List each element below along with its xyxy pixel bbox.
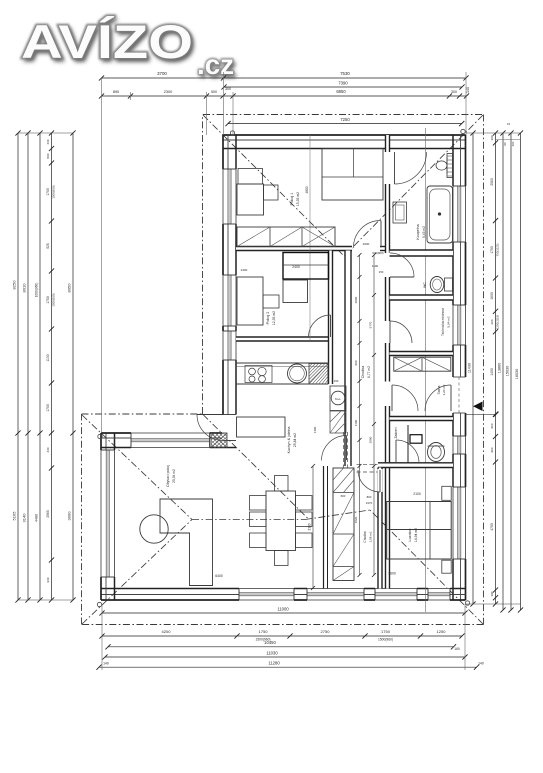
door satna left (391, 385, 393, 411)
svg-text:925: 925 (46, 243, 50, 249)
bottom dimension row 10450 (105, 640, 460, 651)
svg-text:.cz: .cz (197, 49, 234, 80)
window bottom wall dining (239, 588, 294, 602)
top dimension row 7390 (221, 81, 470, 94)
exterior wall right (453, 135, 466, 600)
svg-text:300: 300 (490, 135, 494, 140)
wardrobe room2 (283, 253, 329, 280)
window right wall wc2 (452, 436, 467, 454)
svg-text:Pokoj 2: Pokoj 2 (266, 312, 270, 325)
window extension left wall living room (100, 450, 116, 577)
svg-text:3100: 3100 (308, 523, 312, 530)
svg-text:900: 900 (354, 360, 358, 365)
svg-text:1100: 1100 (354, 419, 358, 426)
svg-text:2580: 2580 (490, 178, 494, 186)
svg-text:140: 140 (478, 662, 484, 666)
right dimension column inner (468, 130, 476, 606)
door hallway to living room (346, 436, 348, 461)
bathroom radiator (447, 154, 453, 178)
exterior wall extension top (101, 433, 236, 448)
window bottom wall passage (307, 588, 364, 602)
bed 1 kids room (237, 169, 264, 216)
door kitchen exterior opening (222, 415, 237, 441)
svg-text:Pokoj 1: Pokoj 1 (290, 193, 294, 206)
reference line x310 (309, 135, 311, 340)
left dimension column 3 (35, 130, 43, 602)
svg-text:2400: 2400 (292, 265, 300, 269)
kitchen counter (236, 363, 328, 384)
door wc (390, 276, 414, 278)
svg-text:7250: 7250 (340, 117, 350, 122)
door wc2 (395, 440, 397, 463)
roof hip living room upper (82, 415, 192, 520)
wall satna bottom (390, 417, 454, 421)
svg-text:90: 90 (503, 142, 507, 146)
svg-text:1130: 1130 (46, 354, 50, 361)
top dimension row 7250 (225, 117, 464, 126)
label passage (363, 531, 373, 542)
svg-text:1970: 1970 (366, 501, 373, 505)
svg-text:13860: 13860 (498, 363, 502, 374)
svg-text:Kuchyn & jidelna: Kuchyn & jidelna (287, 427, 291, 454)
label satna (437, 384, 446, 395)
hallway dimension chain 1 (354, 253, 362, 577)
svg-text:1750: 1750 (381, 629, 391, 634)
nightstand room2 (263, 295, 279, 308)
dim labels hallway bottom (341, 494, 373, 505)
wc2 cistern (410, 435, 422, 444)
hallway dimension chain 2 (369, 253, 377, 577)
svg-text:7530: 7530 (340, 71, 350, 76)
hallway left wall (345, 251, 351, 467)
svg-text:960: 960 (490, 447, 494, 452)
niche hatch (330, 411, 346, 433)
svg-text:940: 940 (46, 577, 50, 582)
svg-text:500: 500 (211, 90, 217, 94)
roof hip line top-right (344, 115, 483, 256)
svg-text:296: 296 (490, 319, 494, 324)
wall room2 right (329, 251, 333, 385)
nightstand kids room (264, 185, 279, 200)
svg-text:1750: 1750 (46, 188, 50, 196)
svg-text:1500(960): 1500(960) (378, 638, 393, 642)
svg-text:3700: 3700 (157, 71, 167, 76)
svg-text:1750: 1750 (490, 246, 494, 254)
label entry (394, 427, 398, 438)
svg-text:3600: 3600 (388, 572, 396, 576)
svg-text:890: 890 (113, 90, 119, 94)
dining chair top (275, 476, 289, 492)
bottom dimension row 11280 (96, 661, 484, 670)
label kids room (290, 192, 300, 206)
svg-text:800: 800 (367, 495, 372, 499)
svg-text:300: 300 (451, 90, 457, 94)
wall bedroom left (378, 468, 382, 589)
living room right wall (323, 466, 325, 589)
masonry pier hatched (211, 433, 227, 448)
svg-text:11280: 11280 (268, 661, 280, 666)
svg-text:140: 140 (103, 662, 109, 666)
svg-text:25,94 m2: 25,94 m2 (172, 469, 176, 483)
svg-text:7390: 7390 (338, 81, 348, 86)
door satna right (450, 385, 452, 411)
wall entry bottom (378, 463, 453, 468)
svg-text:1400: 1400 (313, 426, 317, 433)
kitchen sink (288, 364, 307, 383)
wc2 partition (407, 425, 409, 463)
right dimension column outer (515, 130, 523, 612)
svg-text:15030: 15030 (506, 366, 510, 377)
svg-text:Obyvaci pokoj: Obyvaci pokoj (166, 465, 170, 487)
svg-text:Chodba: Chodba (361, 366, 365, 379)
svg-text:6850: 6850 (336, 89, 346, 94)
svg-text:750(1125): 750(1125) (496, 243, 500, 256)
roof hip line top-left (203, 115, 344, 256)
bottom dimension row 11000 (99, 607, 467, 616)
top extension lines (102, 72, 467, 433)
left dimension tick chain (46, 130, 56, 602)
svg-text:1750: 1750 (46, 404, 50, 412)
svg-text:8050: 8050 (67, 283, 72, 293)
dim cluster hallway top (363, 242, 384, 274)
dashed lintel hallway (344, 432, 378, 472)
svg-text:3140: 3140 (22, 513, 27, 523)
svg-text:3000: 3000 (67, 511, 72, 521)
bed 2 kids room (322, 149, 383, 201)
svg-text:150: 150 (334, 379, 339, 383)
roof valley from inner corner (203, 415, 309, 520)
satna wardrobe with X (394, 357, 451, 371)
logo AVIZO.cz watermark (21, 15, 236, 83)
svg-text:4480: 4480 (35, 514, 39, 522)
svg-text:Zadveri: Zadveri (394, 427, 398, 438)
left dimension column 8250 (12, 130, 21, 602)
svg-text:5,45 m2: 5,45 m2 (422, 226, 426, 238)
svg-text:2000: 2000 (363, 242, 370, 246)
svg-text:11000: 11000 (277, 607, 289, 612)
left bottom connector (18, 599, 73, 601)
svg-text:25,84 m2: 25,84 m2 (293, 433, 297, 447)
svg-text:1500(920): 1500(920) (52, 293, 56, 306)
roof ridge kink (305, 510, 370, 520)
svg-text:890: 890 (46, 153, 50, 158)
kitchen hob (245, 366, 272, 383)
svg-text:5770: 5770 (369, 321, 373, 328)
wc toilet (430, 277, 452, 293)
svg-text:160: 160 (454, 647, 460, 651)
bed room2 (237, 277, 263, 325)
svg-text:440: 440 (46, 447, 50, 452)
sofa L-shape living room (160, 499, 213, 586)
svg-text:15,35 m2: 15,35 m2 (296, 192, 300, 206)
svg-text:11430: 11430 (468, 363, 472, 373)
svg-text:1750: 1750 (259, 629, 269, 634)
entrance door opening right wall (452, 377, 467, 413)
window bottom wall bedroom 2 (428, 588, 450, 602)
top dimension row 890 2300 500 300 6850 (99, 87, 469, 99)
svg-text:14,94 m2: 14,94 m2 (414, 528, 418, 542)
bottom dimension row 11030 (102, 651, 467, 660)
svg-text:5165: 5165 (12, 511, 17, 521)
corner marker circles (97, 129, 469, 606)
svg-text:300: 300 (225, 87, 231, 91)
svg-text:8,77 m2: 8,77 m2 (367, 366, 371, 378)
right dimension tick chain (490, 122, 515, 607)
left dimension column 8010 (22, 130, 31, 602)
svg-text:4750: 4750 (490, 523, 494, 531)
right bottom connector (466, 603, 521, 605)
svg-text:6400: 6400 (215, 574, 223, 578)
label wc (423, 282, 427, 288)
top dimension row 3700-7530 (99, 71, 469, 81)
svg-text:2000: 2000 (354, 296, 358, 303)
right dimension column 15030 (506, 130, 514, 612)
roof hip bottom-right (370, 510, 483, 624)
window extension top wall (131, 432, 210, 449)
window right wall bedroom (452, 487, 467, 559)
entrance level line (466, 413, 496, 415)
label room2 (266, 311, 276, 325)
label tech room (441, 308, 451, 336)
svg-text:Technicka mistnost: Technicka mistnost (441, 308, 445, 336)
bathroom washbasin (436, 157, 447, 174)
svg-text:440: 440 (46, 139, 50, 144)
roof ridge horizontal (192, 519, 305, 521)
dining chair bottom (275, 551, 289, 566)
dining table (266, 491, 296, 551)
svg-text:1400: 1400 (490, 368, 494, 376)
svg-text:8010: 8010 (22, 283, 27, 293)
wall kids room bottom (236, 247, 352, 251)
svg-text:600: 600 (341, 494, 346, 498)
svg-text:2300: 2300 (164, 90, 172, 94)
label kitchen (287, 427, 297, 454)
window left wall kids room (222, 169, 237, 224)
svg-text:4200: 4200 (162, 629, 172, 634)
nightstand bedroom top (442, 486, 451, 500)
window right wall tech room (452, 305, 467, 345)
svg-text:300: 300 (490, 591, 494, 596)
label bedroom (408, 528, 418, 542)
window right wall bathroom (452, 186, 467, 242)
door tech room (389, 321, 391, 343)
svg-text:8250: 8250 (12, 280, 17, 290)
svg-text:WC: WC (423, 282, 427, 288)
svg-text:150: 150 (379, 270, 384, 274)
double bed bedroom (387, 502, 452, 560)
window left wall room2 (222, 275, 237, 326)
dining chairs right (296, 496, 313, 548)
svg-text:10450: 10450 (264, 640, 276, 645)
svg-text:140: 140 (466, 87, 470, 93)
svg-text:M+L: M+L (335, 397, 341, 401)
wall room2 bottom (236, 337, 333, 341)
door kids room (380, 221, 382, 248)
exterior wall extension left (101, 433, 115, 600)
label bathroom (416, 224, 426, 239)
kitchen island (237, 417, 286, 437)
bathtub (427, 186, 453, 243)
svg-text:1000(960): 1000(960) (35, 283, 39, 298)
svg-text:1750: 1750 (46, 296, 50, 304)
kitchen appliance hatched (309, 364, 328, 385)
desk room2 (283, 280, 308, 303)
wardrobe strip kids room (237, 227, 335, 247)
hallway right wall (386, 135, 390, 589)
built-in wardrobe strip (333, 468, 354, 581)
svg-text:900: 900 (490, 423, 494, 428)
door bedroom (378, 469, 383, 492)
label hallway (361, 366, 371, 379)
svg-text:1600: 1600 (490, 292, 494, 300)
nightstand bedroom bottom (442, 560, 451, 573)
svg-text:Koupelna: Koupelna (416, 224, 420, 239)
label living room (166, 465, 176, 487)
door kitchen exterior (197, 414, 223, 416)
svg-text:1520: 1520 (354, 516, 358, 523)
svg-text:900(800): 900(800) (372, 251, 383, 255)
svg-text:12,35 m2: 12,35 m2 (272, 311, 276, 325)
armchair living room (140, 515, 168, 543)
door room2 (330, 315, 332, 337)
svg-text:16030: 16030 (515, 369, 519, 380)
svg-text:300: 300 (511, 141, 515, 146)
wall tech room bottom (390, 352, 454, 356)
svg-text:3080: 3080 (369, 436, 373, 443)
bottom dimension row segments (99, 629, 464, 642)
svg-text:2750: 2750 (321, 629, 331, 634)
exterior wall bottom (101, 589, 466, 601)
svg-text:4,20 m2: 4,20 m2 (442, 384, 446, 395)
svg-text:1500(920): 1500(920) (52, 185, 56, 198)
svg-text:3400: 3400 (241, 268, 248, 272)
left dimension column 3000 (67, 130, 76, 602)
wall wc bottom (390, 295, 454, 300)
bathroom washing machine (393, 202, 407, 223)
svg-text:1100: 1100 (372, 264, 379, 268)
svg-text:Loznice: Loznice (408, 528, 412, 541)
left top connector (18, 132, 73, 134)
svg-text:1250: 1250 (437, 629, 447, 634)
window left wall kitchen (222, 331, 237, 360)
wall bathroom bottom (390, 250, 454, 256)
svg-text:1250(1118): 1250(1118) (496, 315, 500, 329)
door bathroom (394, 152, 396, 184)
roof hip living room lower (82, 520, 192, 625)
wc2 toilet (428, 443, 445, 462)
right dimension column 13860 (498, 130, 506, 612)
section line x425 (425, 128, 427, 612)
dining chairs left (250, 496, 267, 548)
exterior wall top (223, 135, 466, 149)
entrance arrow (473, 402, 483, 412)
bottom extension lines (102, 604, 465, 670)
roof overhang outline (dash-dot) (82, 115, 484, 625)
svg-text:15: 15 (507, 122, 511, 126)
svg-text:Satna: Satna (437, 386, 441, 395)
svg-text:Chodba: Chodba (363, 531, 367, 542)
svg-text:2100: 2100 (413, 492, 421, 496)
svg-text:4800: 4800 (305, 186, 309, 193)
right top connector (466, 132, 521, 134)
svg-text:AVÍZO: AVÍZO (21, 15, 193, 68)
svg-text:5,94 m2: 5,94 m2 (447, 316, 451, 327)
washing machine niche (330, 386, 346, 411)
svg-text:11030: 11030 (266, 651, 278, 656)
svg-text:3,08 m2: 3,08 m2 (369, 531, 373, 542)
svg-text:2965: 2965 (46, 510, 50, 518)
kitchen vertical dim line (308, 464, 316, 590)
window bottom wall bedroom 1 (375, 588, 417, 602)
exterior wall left upper (223, 135, 236, 433)
